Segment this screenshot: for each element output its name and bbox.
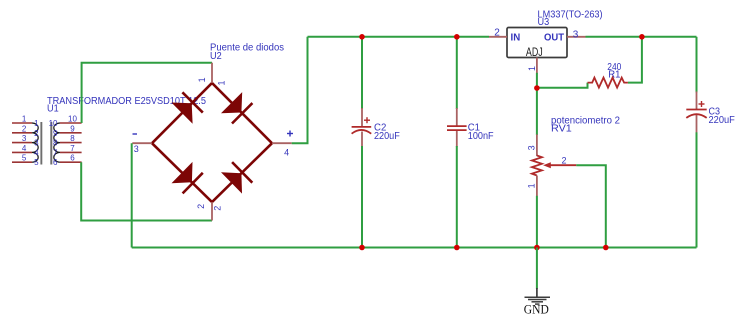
transformer U1 bbox=[12, 96, 206, 167]
junction top C2 bbox=[359, 34, 365, 40]
svg-text:U2: U2 bbox=[210, 51, 222, 62]
junction top C1 bbox=[454, 34, 460, 40]
diode D-topleft triangle bbox=[171, 103, 192, 124]
junction top R1 riser bbox=[639, 34, 645, 40]
wire R1 to riser bbox=[628, 37, 642, 83]
svg-text:6: 6 bbox=[70, 154, 75, 163]
C2 bottom stub bbox=[361, 132, 363, 148]
pin 3 stub bbox=[536, 134, 538, 156]
svg-text:RV1: RV1 bbox=[551, 124, 572, 135]
junction bottom C2 bbox=[359, 245, 365, 251]
wire bridge plus up to top bus bbox=[292, 37, 308, 143]
wire bridge minus down to bottom bus bbox=[131, 143, 133, 247]
wire RV1 bottom bbox=[536, 196, 538, 248]
svg-text:100nF: 100nF bbox=[468, 131, 494, 142]
GND stem bbox=[536, 288, 538, 297]
secondary coil bbox=[54, 123, 60, 162]
C1 top stub bbox=[456, 108, 458, 126]
svg-text:10: 10 bbox=[49, 119, 58, 128]
svg-text:1: 1 bbox=[34, 119, 39, 128]
C2 bottom plate arc bbox=[352, 130, 372, 134]
pin 1 wire bbox=[12, 122, 32, 124]
minus mark bbox=[133, 133, 138, 135]
svg-text:1: 1 bbox=[197, 77, 207, 82]
svg-text:2: 2 bbox=[22, 124, 27, 133]
svg-text:ADJ: ADJ bbox=[526, 47, 543, 59]
pin numbers outer right bbox=[68, 115, 77, 163]
capacitor C2 bbox=[352, 37, 400, 248]
pin 4 wire bbox=[12, 151, 32, 153]
wire C1 bottom bbox=[456, 146, 458, 248]
svg-text:OUT: OUT bbox=[544, 33, 564, 44]
svg-text:10: 10 bbox=[68, 115, 77, 124]
wire pin10 to top-left corner bbox=[82, 63, 212, 123]
wire bottom bus bbox=[132, 247, 697, 249]
R1 zigzag bbox=[588, 78, 628, 88]
pin 2 wire bbox=[12, 132, 32, 134]
svg-text:2: 2 bbox=[212, 206, 222, 211]
C3 bottom plate arc bbox=[686, 114, 706, 118]
C3 bottom stub bbox=[696, 115, 698, 133]
wiper line bbox=[551, 164, 577, 166]
svg-text:9: 9 bbox=[70, 124, 75, 133]
diode D-bottomleft triangle bbox=[172, 162, 193, 183]
svg-text:7: 7 bbox=[53, 148, 58, 157]
C2 top plate bbox=[352, 126, 372, 128]
capacitor C3 bbox=[686, 92, 735, 248]
C2 plus mark bbox=[364, 117, 370, 123]
svg-text:4: 4 bbox=[284, 147, 289, 157]
svg-text:U3: U3 bbox=[538, 17, 550, 28]
wire C2 bottom bbox=[361, 146, 363, 248]
wire OUT to C3 corner bbox=[586, 36, 697, 38]
plus mark bbox=[287, 131, 293, 137]
pin 6 wire bbox=[60, 161, 82, 163]
capacitor C1 bbox=[447, 37, 494, 248]
pin 2 stub bottom bbox=[211, 202, 213, 221]
svg-text:2: 2 bbox=[494, 28, 500, 39]
svg-text:1: 1 bbox=[216, 80, 226, 85]
pin OUT stub bbox=[567, 36, 586, 38]
bridge rectifier U2 bbox=[132, 42, 293, 220]
wire C1 top bbox=[456, 37, 458, 109]
pin 9 wire bbox=[60, 132, 82, 134]
wire C2 top bbox=[361, 37, 363, 109]
pin 5 wire bbox=[12, 161, 32, 163]
wire top bus bbox=[308, 36, 490, 38]
svg-text:IN: IN bbox=[511, 33, 521, 44]
svg-text:9: 9 bbox=[53, 129, 58, 138]
GND bars bbox=[525, 297, 551, 304]
svg-text:220uF: 220uF bbox=[374, 131, 400, 142]
svg-text:3: 3 bbox=[527, 145, 537, 150]
svg-text:3: 3 bbox=[134, 144, 139, 154]
core bar right bbox=[50, 122, 52, 165]
pin 10 wire bbox=[60, 122, 82, 124]
svg-text:R1: R1 bbox=[608, 70, 621, 81]
U3 body bbox=[507, 28, 567, 58]
svg-text:2: 2 bbox=[561, 156, 566, 166]
pin 1 stub bbox=[536, 176, 538, 197]
C1 bottom plate bbox=[447, 129, 467, 131]
svg-text:3: 3 bbox=[573, 30, 579, 41]
pin IN stub bbox=[489, 36, 507, 38]
diamond edges bbox=[152, 83, 272, 202]
core bar left bbox=[40, 122, 42, 165]
svg-text:8: 8 bbox=[70, 134, 75, 143]
svg-text:1: 1 bbox=[527, 183, 537, 188]
regulator U3 bbox=[489, 10, 603, 74]
svg-text:5: 5 bbox=[22, 154, 27, 163]
wire ADJ to R1 bbox=[537, 83, 588, 88]
pin numbers inner right bbox=[49, 119, 58, 167]
svg-text:GND: GND bbox=[524, 302, 549, 316]
svg-text:3: 3 bbox=[34, 139, 39, 148]
C3 plus mark bbox=[699, 101, 705, 107]
diode D-topright bar bbox=[232, 103, 252, 123]
C3 top plate bbox=[686, 109, 706, 111]
svg-text:7: 7 bbox=[70, 144, 75, 153]
primary coil bbox=[32, 123, 38, 162]
pin 8 wire bbox=[60, 142, 82, 144]
wire C3 bottom bbox=[696, 132, 698, 247]
diode D-topleft bar bbox=[182, 92, 202, 112]
junction bottom wiper bbox=[603, 245, 609, 251]
svg-text:6: 6 bbox=[53, 158, 58, 167]
svg-text:3: 3 bbox=[22, 134, 27, 143]
wire wiper bbox=[576, 165, 606, 247]
C1 bottom stub bbox=[456, 131, 458, 147]
pin 3 stub left bbox=[132, 142, 152, 144]
potentiometer RV1 bbox=[527, 115, 621, 247]
diode D-bottomright bar bbox=[232, 162, 252, 183]
junction bottom C1 bbox=[454, 245, 460, 251]
junction ADJ node bbox=[534, 85, 540, 91]
svg-text:4: 4 bbox=[22, 144, 27, 153]
diode D-bottomleft bar bbox=[183, 173, 203, 194]
wire ADJ vertical bbox=[536, 73, 538, 135]
svg-text:8: 8 bbox=[53, 139, 58, 148]
svg-text:1: 1 bbox=[527, 66, 537, 71]
pin 1 stub top bbox=[211, 63, 213, 83]
C2 top stub bbox=[361, 108, 363, 127]
pin numbers inner left bbox=[34, 119, 39, 167]
pin ADJ stub bbox=[536, 58, 538, 74]
svg-text:220uF: 220uF bbox=[709, 115, 735, 126]
junction bottom RV1 bbox=[534, 245, 540, 251]
svg-text:5: 5 bbox=[34, 158, 39, 167]
wire pin6 to bridge bottom bbox=[81, 162, 212, 220]
C3 top stub bbox=[696, 92, 698, 110]
wire GND stem bbox=[536, 248, 538, 289]
wiper arrow bbox=[543, 162, 551, 168]
RV1 zigzag bbox=[532, 156, 542, 176]
svg-text:1: 1 bbox=[22, 115, 27, 124]
svg-text:U1: U1 bbox=[47, 103, 59, 114]
wire C3 drop bbox=[696, 37, 698, 93]
pin 4 stub right bbox=[272, 142, 292, 144]
C1 top plate bbox=[447, 125, 467, 127]
ground bbox=[524, 248, 550, 317]
resistor R1 bbox=[588, 62, 628, 88]
diode D-bottomright triangle bbox=[221, 172, 242, 193]
svg-text:4: 4 bbox=[34, 148, 39, 157]
pin 7 wire bbox=[60, 151, 82, 153]
svg-text:2: 2 bbox=[196, 204, 206, 209]
diode D-topright triangle bbox=[221, 92, 242, 113]
svg-text:2: 2 bbox=[34, 129, 39, 138]
pin numbers outer left bbox=[22, 115, 27, 163]
pin 3 wire bbox=[12, 142, 32, 144]
